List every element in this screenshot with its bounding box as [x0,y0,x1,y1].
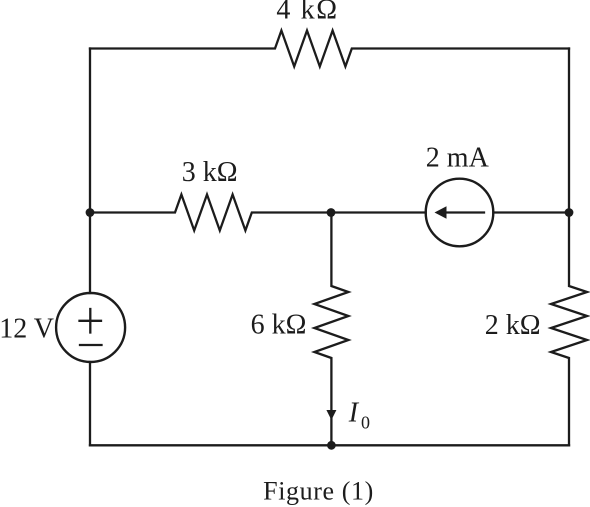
svg-text:2 kΩ: 2 kΩ [485,310,541,341]
svg-text:4 kΩ: 4 kΩ [276,0,338,25]
svg-text:0: 0 [361,413,370,433]
svg-text:Figure (1): Figure (1) [263,476,374,505]
svg-text:3 kΩ: 3 kΩ [182,157,238,188]
svg-text:6 kΩ: 6 kΩ [251,310,307,341]
svg-text:12 V: 12 V [0,314,54,345]
svg-text:I: I [348,398,360,429]
svg-text:2 mA: 2 mA [426,142,490,173]
